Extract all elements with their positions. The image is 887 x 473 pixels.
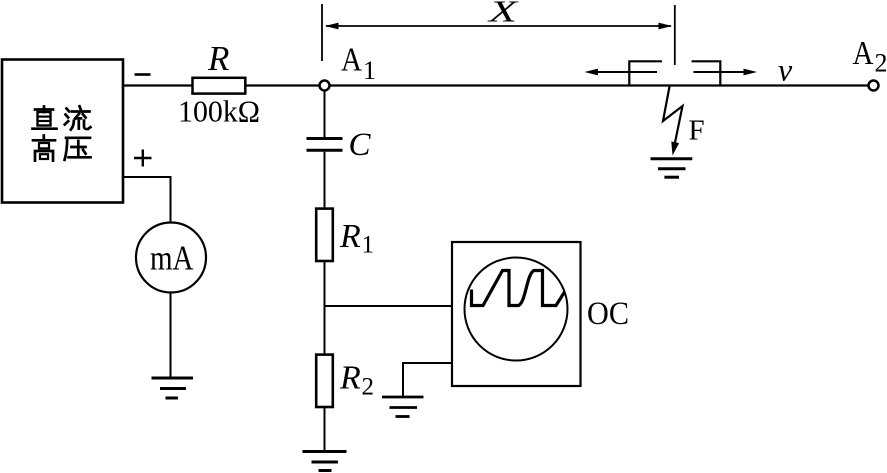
resistor R1 <box>316 209 333 261</box>
wire: source plus terminal to mA meter <box>123 177 171 223</box>
dimension line X with arrowheads <box>325 23 672 30</box>
svg-text:1: 1 <box>362 232 375 259</box>
svg-text:R: R <box>339 218 361 255</box>
svg-text:2: 2 <box>875 49 887 78</box>
label 高压 (high voltage) hand-drawn glyphs <box>33 136 91 161</box>
milliammeter mA <box>136 223 206 293</box>
svg-text:X: X <box>486 0 519 29</box>
svg-text:F: F <box>689 115 705 147</box>
svg-text:100kΩ: 100kΩ <box>178 94 260 129</box>
plus terminal label <box>134 150 152 167</box>
svg-text:1: 1 <box>363 56 376 85</box>
svg-text:A: A <box>853 35 874 72</box>
label 直流 (DC) hand-drawn glyphs <box>33 106 91 129</box>
oscilloscope screen circle <box>465 258 568 361</box>
wire: overhead line A1 to A2 <box>330 84 869 86</box>
svg-text:A: A <box>341 42 362 79</box>
ground below R2 <box>303 452 347 471</box>
svg-text:OC: OC <box>587 296 629 332</box>
node A1 terminal <box>320 81 330 91</box>
wire: oscilloscope ground lead <box>403 363 452 397</box>
resistor R 100k <box>193 78 246 94</box>
minus terminal label <box>135 73 151 76</box>
right traveling wavefront symbol <box>692 61 721 85</box>
dimension tick at fault point <box>674 5 676 65</box>
wire: junction to oscilloscope input <box>325 305 453 307</box>
svg-text:C: C <box>349 127 372 163</box>
ground at fault <box>651 159 693 178</box>
wire: mA meter to ground <box>170 293 172 379</box>
svg-text:2: 2 <box>362 374 375 401</box>
right velocity arrow <box>694 69 758 76</box>
svg-text:R: R <box>339 360 361 397</box>
left traveling wavefront symbol <box>629 61 662 85</box>
capacitor C <box>307 139 343 151</box>
ground below mA meter <box>152 378 194 398</box>
svg-text:R: R <box>207 39 229 78</box>
wire: source to resistor R <box>123 84 193 86</box>
wire: resistor R to node A1 <box>246 84 320 86</box>
wire: R2 to ground <box>324 407 326 452</box>
wire: capacitor to R1 <box>324 152 326 209</box>
fault lightning arrow <box>663 87 683 156</box>
wire: A1 down to capacitor <box>324 90 326 137</box>
oscilloscope OC box <box>452 242 581 386</box>
svg-text:v: v <box>778 52 793 88</box>
oscilloscope waveform <box>472 271 565 306</box>
svg-text:mA: mA <box>150 239 194 278</box>
ground at oscilloscope <box>382 397 424 417</box>
wire: R1 to R2 through junction <box>324 261 326 355</box>
resistor R2 <box>316 355 333 407</box>
terminal A2 <box>869 81 879 91</box>
dimension tick at A1 <box>321 4 323 61</box>
left velocity arrow <box>585 69 658 76</box>
DC high-voltage source box <box>2 60 123 203</box>
